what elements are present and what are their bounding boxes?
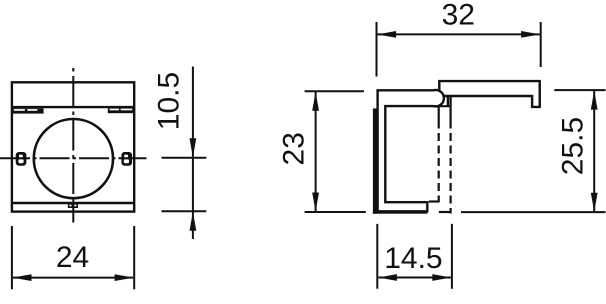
side view spring thick bottom bbox=[373, 211, 427, 214]
horizontal centerline bbox=[0, 157, 147, 159]
side view spring thick vertical bbox=[373, 109, 377, 214]
side view leg rear edge solid bbox=[438, 106, 440, 120]
dimension 10.5 line bbox=[192, 67, 194, 240]
front view inner top line bbox=[12, 106, 134, 108]
left side clip bbox=[16, 152, 27, 166]
dimension 23 arrow up bbox=[312, 92, 319, 111]
side view inner bottom ledge line bbox=[429, 200, 440, 202]
dimension 10.5 arrow up bbox=[190, 212, 197, 231]
dimension 25.5 arrow down bbox=[591, 193, 598, 212]
dimension 10.5 bottom tick bbox=[162, 210, 207, 212]
dimension 14.5 arrow right bbox=[432, 274, 451, 281]
vertical centerline bbox=[72, 68, 74, 223]
svg-text:32: 32 bbox=[442, 0, 475, 32]
svg-text:23: 23 bbox=[277, 132, 310, 165]
dimension 23 arrow down bbox=[312, 193, 319, 212]
dimension 32 arrow right bbox=[521, 31, 540, 38]
side view leg front hidden line bbox=[450, 121, 452, 214]
dimension 14.5 extension line right bbox=[451, 224, 453, 289]
dimension 24 extension line left bbox=[11, 226, 13, 289]
dimension 23 top tick bbox=[305, 90, 364, 92]
dimension 24 line bbox=[13, 277, 133, 279]
svg-text:25.5: 25.5 bbox=[556, 117, 589, 175]
side view clamp arm outline bbox=[439, 81, 539, 107]
dimension 24 arrow right bbox=[115, 274, 134, 281]
svg-text:10.5: 10.5 bbox=[153, 72, 186, 130]
svg-text:24: 24 bbox=[56, 241, 89, 274]
dimension 32 extension line left bbox=[376, 22, 378, 77]
front view circular opening bbox=[34, 119, 113, 198]
dimension 23 line bbox=[315, 92, 317, 211]
side view leg rear hidden line bbox=[438, 121, 440, 203]
side view C-profile outline bbox=[378, 90, 444, 211]
front view housing outline bbox=[12, 82, 134, 211]
dimension 32 line bbox=[378, 33, 540, 35]
side view leg front edge solid bbox=[450, 96, 452, 121]
dimension 24 arrow left bbox=[13, 274, 32, 281]
side view hidden bottom dash bbox=[439, 211, 450, 213]
dimension 14.5 arrow left bbox=[378, 274, 397, 281]
side view inner top ledge line bbox=[434, 105, 451, 107]
right side clip bbox=[121, 152, 132, 166]
dimension 32 extension line right bbox=[540, 22, 542, 67]
dimension 32 arrow left bbox=[377, 31, 396, 38]
svg-text:14.5: 14.5 bbox=[384, 242, 442, 275]
dimension 25.5 arrow up bbox=[591, 91, 598, 110]
dimension 24 extension line right bbox=[133, 226, 135, 289]
dimension 25.5 top tick bbox=[554, 89, 605, 91]
dimension 14.5 line bbox=[378, 277, 451, 279]
front view inner bottom line bbox=[12, 202, 134, 204]
top left latch tab bbox=[13, 108, 44, 113]
top right latch tab bbox=[108, 108, 135, 113]
dimension 25.5 bottom tick bbox=[461, 211, 606, 213]
dimension 14.5 extension line left bbox=[376, 224, 378, 289]
dimension 10.5 arrow down bbox=[190, 138, 197, 157]
bottom center tab bbox=[68, 204, 78, 208]
dimension 10.5 top tick bbox=[162, 157, 207, 159]
dimension 23 bottom tick bbox=[305, 211, 366, 213]
dimension 25.5 line bbox=[593, 91, 595, 212]
